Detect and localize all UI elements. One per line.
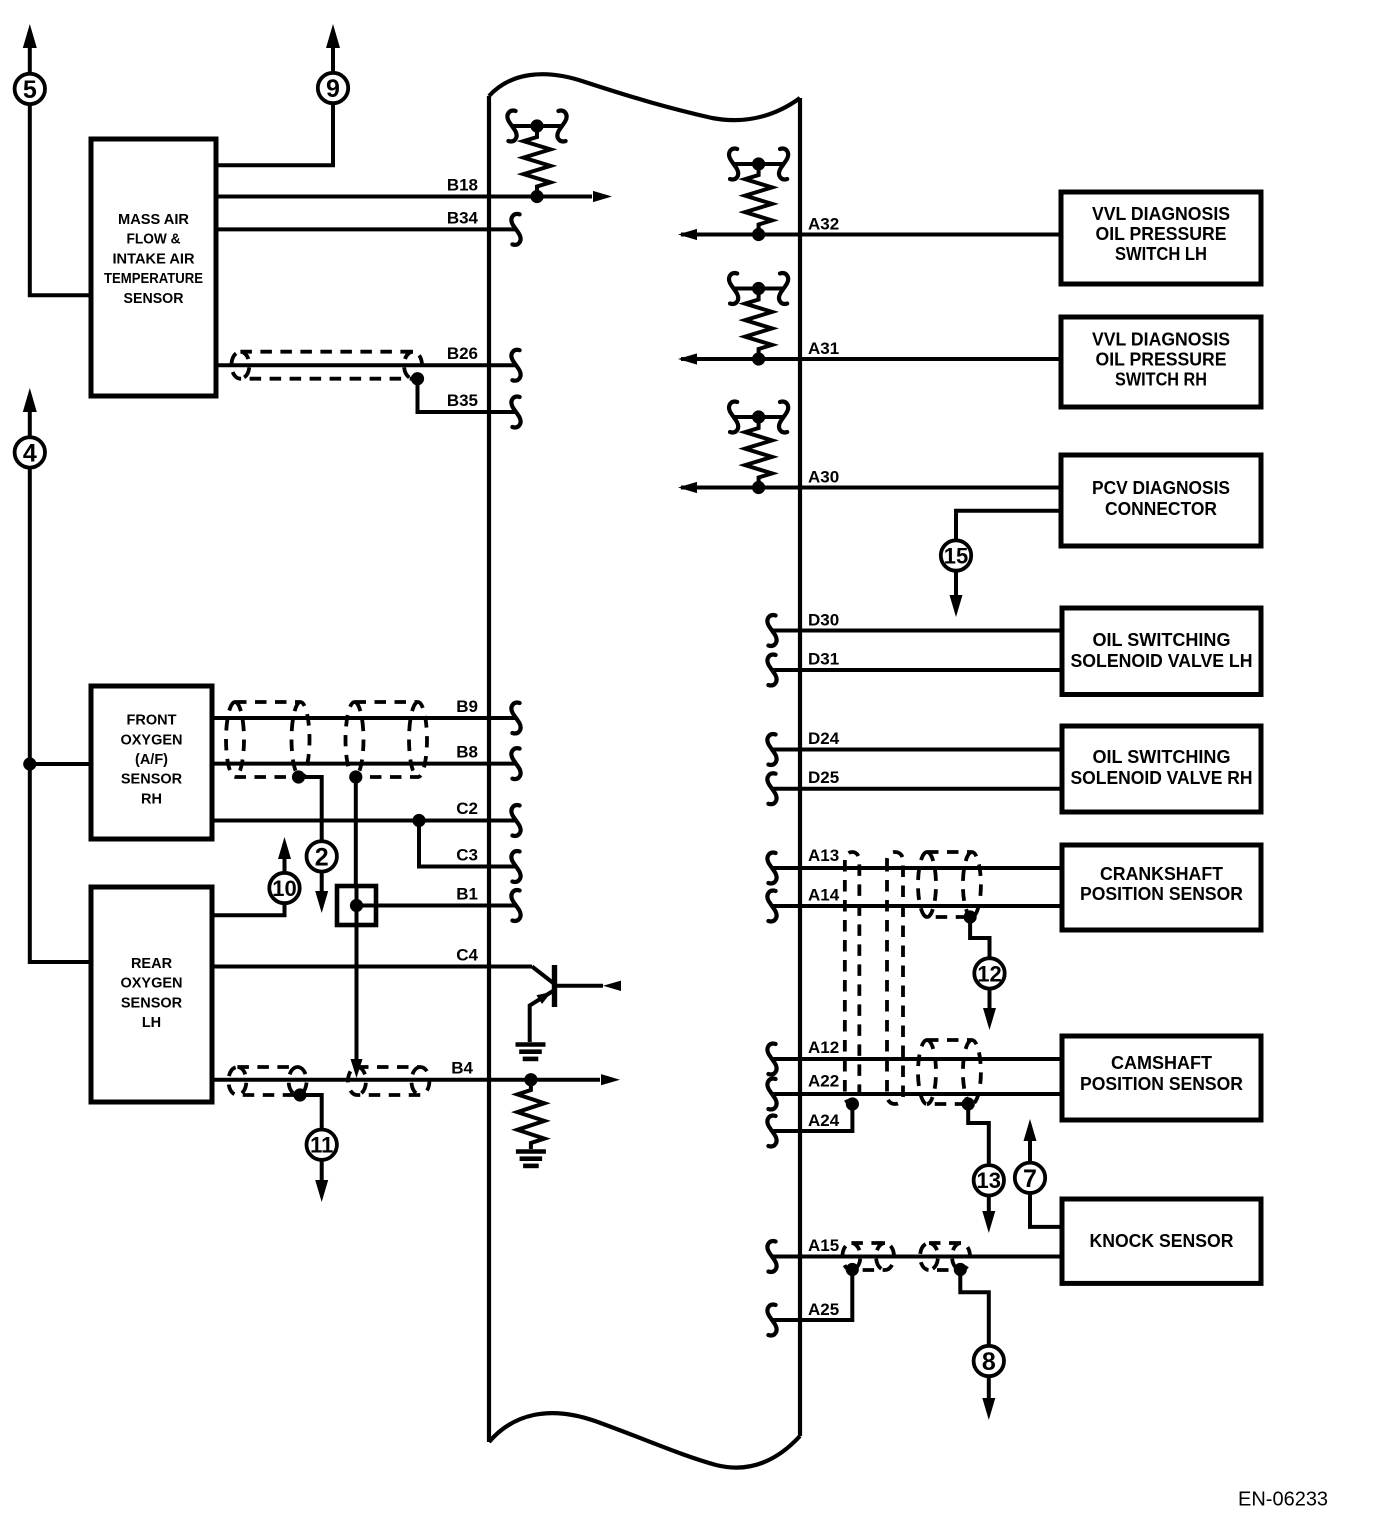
node 4 circled number 4 [15,437,45,467]
branch to FRONT OXYGEN [30,762,91,766]
R-A31 top-bar left continuation squiggle [729,273,738,304]
VVL DIAGNOSIS OIL PRESSURE SWITCH RH box [1061,317,1261,407]
node 10 arrow up [278,837,291,859]
node 7 circled number 7 [1015,1163,1045,1193]
svg-text:B18: B18 [447,176,478,195]
svg-text:INTAKE AIR: INTAKE AIR [113,251,196,267]
svg-text:B26: B26 [447,344,478,363]
svg-text:B1: B1 [456,885,478,904]
A15 shieldA junction [846,1263,859,1276]
svg-text:C2: C2 [456,799,478,818]
MASS AIR FLOW & INTAKE AIR TEMPERATURE SENSOR box [91,139,216,396]
svg-text:D31: D31 [808,650,839,669]
svg-text:OIL PRESSURE: OIL PRESSURE [1096,223,1227,244]
svg-text:FLOW &: FLOW & [127,232,181,248]
ECU torn bottom edge [489,1413,800,1467]
break B9 [511,703,520,734]
node 13 arrow shaft [987,1195,991,1212]
svg-text:SOLENOID VALVE LH: SOLENOID VALVE LH [1071,650,1253,671]
break B35 [511,397,520,428]
KNOCK SENSOR box [1062,1199,1261,1283]
svg-text:POSITION SENSOR: POSITION SENSOR [1080,1073,1243,1094]
arrow into B4 shield2 [351,1059,363,1078]
svg-text:KNOCK SENSOR: KNOCK SENSOR [1090,1230,1234,1251]
break A13 [767,853,776,884]
transistor Q1 base bar [552,965,557,1007]
wire A14 [772,904,1062,908]
wire MAF to node 9 [216,103,333,165]
R-A32 top-bar left continuation squiggle [729,149,738,180]
svg-text:CRANKSHAFT: CRANKSHAFT [1100,863,1224,884]
node 12 arrow shaft [988,988,992,1010]
svg-text:8: 8 [982,1348,996,1376]
transistor collector wire [555,984,604,988]
shield around A13/A14 [918,852,981,917]
wire D24 [772,748,1062,752]
wire REAR OXYGEN to node 10 [212,902,285,915]
svg-text:POSITION SENSOR: POSITION SENSOR [1080,883,1243,904]
B18 arrow right [593,191,612,202]
break B8 [511,748,520,779]
node 8 circled number 8 [974,1346,1004,1376]
svg-text:A15: A15 [808,1236,839,1255]
node 7 arrow up [1024,1119,1037,1141]
break D24 [767,734,776,765]
node 9 arrow up [326,24,340,48]
wire crank shield to node 12 [970,917,989,958]
R-A31 top bar [734,287,784,291]
transistor emitter ground [516,1045,546,1059]
svg-text:A12: A12 [808,1038,839,1057]
VVL DIAGNOSIS OIL PRESSURE SWITCH LH box [1061,192,1261,284]
collector arrow pointing left [603,981,621,991]
R-B18 top junction [530,119,543,132]
wire A32 [681,233,1061,237]
node 4 arrow up [23,388,37,412]
svg-text:B35: B35 [447,391,478,410]
CAMSHAFT POSITION SENSOR box [1062,1036,1261,1120]
R-A32 bottom junction [752,228,765,241]
shield 2 around B9/B8 [346,702,428,777]
node 11 arrow down [315,1180,328,1202]
svg-text:SENSOR: SENSOR [121,995,183,1011]
R-B18 top-bar right continuation squiggle [557,111,566,142]
R-B18 top-bar left continuation squiggle [507,111,516,142]
R-A30 top bar [734,415,784,419]
node 12 circled number 12 [974,958,1004,988]
svg-text:10: 10 [272,876,296,901]
R-A30 top junction [752,410,765,423]
wire A22 [772,1092,1062,1096]
wire A12 [772,1057,1062,1061]
resistor R-B18 [524,131,551,193]
svg-text:(A/F): (A/F) [135,752,168,768]
svg-text:LH: LH [142,1015,161,1031]
svg-text:A25: A25 [808,1300,839,1319]
svg-text:5: 5 [23,76,37,104]
wire B1-square down to B4 shield [355,925,359,1059]
node 15 circled number 15 [941,540,971,570]
svg-text:12: 12 [977,961,1001,986]
R-A31 bottom junction [752,352,765,365]
node 4 arrow shaft [28,408,32,438]
shield1 B9B8 junction [292,770,305,783]
svg-text:A22: A22 [808,1072,839,1091]
break A24 [767,1116,776,1147]
svg-text:15: 15 [944,543,968,568]
resistor R-B4 [517,1084,544,1149]
OIL SWITCHING SOLENOID VALVE RH box [1062,726,1261,812]
R-A30 bottom junction [752,481,765,494]
svg-text:SWITCH LH: SWITCH LH [1115,243,1207,264]
B1 junction square [337,886,376,925]
svg-text:TEMPERATURE: TEMPERATURE [104,271,203,287]
svg-text:SENSOR: SENSOR [121,772,183,788]
shield around A12/A22 [918,1040,981,1104]
svg-text:RH: RH [141,791,162,807]
svg-text:D24: D24 [808,729,840,748]
svg-text:FRONT: FRONT [127,713,177,729]
shield 2 around B4 [348,1067,429,1095]
svg-text:OXYGEN: OXYGEN [120,732,182,748]
svg-text:A30: A30 [808,468,839,487]
node 5 arrow shaft [28,44,32,74]
svg-text:B8: B8 [456,743,478,762]
C4 into base [532,967,555,985]
svg-text:7: 7 [1023,1165,1037,1193]
wire cam shield to node 13 [968,1104,989,1166]
svg-text:D25: D25 [808,768,839,787]
break B26 [511,350,520,381]
wire B9 [212,716,516,720]
resistor R-A31 [745,294,772,356]
svg-text:MASS AIR: MASS AIR [118,212,190,228]
B4 arrow right [601,1074,620,1085]
svg-text:SWITCH RH: SWITCH RH [1115,369,1207,390]
node 5 arrow up [23,24,37,48]
oval1 bottom junction [846,1097,859,1110]
wire C4 [212,965,532,969]
shield2 down to B1 square [354,777,358,886]
shield 1 around B9/B8 [226,702,310,777]
twisted pair shield line 1 [845,852,860,1104]
R-A32 top bar [734,162,784,166]
twisted pair shield line 2 [887,852,903,1104]
ground under R-B4 [516,1152,546,1166]
wire A31 [681,357,1061,361]
ECU left edge wire [487,96,491,1442]
wire node5 to MASS AIR FLOW sensor [30,104,91,296]
node 2 arrow down [315,891,328,913]
wire B26 [216,363,516,367]
B4 junction at resistor [524,1073,537,1086]
svg-text:SENSOR: SENSOR [124,291,185,307]
wire B34 [216,227,516,231]
break B34 [511,214,520,245]
svg-text:A13: A13 [808,846,839,865]
R-A32 top junction [752,157,765,170]
svg-text:C3: C3 [456,846,478,865]
node 15 arrow shaft [954,570,958,596]
node 10 arrow shaft [283,856,287,873]
svg-text:SOLENOID VALVE RH: SOLENOID VALVE RH [1071,767,1253,788]
svg-text:A14: A14 [808,886,840,905]
OIL SWITCHING SOLENOID VALVE LH box [1062,608,1261,695]
break D31 [767,655,776,686]
CRANKSHAFT POSITION SENSOR box [1062,845,1261,930]
node 11 arrow shaft [320,1160,324,1182]
svg-text:OIL PRESSURE: OIL PRESSURE [1096,349,1227,370]
vertical through B1 square [355,886,359,925]
wire D25 [772,787,1062,791]
crank shield junction [964,910,977,923]
wire D31 [772,668,1062,672]
resistor R-A32 [745,169,772,231]
break A22 [767,1079,776,1110]
wire A30 [681,486,1061,490]
node 2 circled number 2 [307,841,337,871]
wire C3 branch [419,821,516,867]
wire A24 [772,1104,852,1131]
PCV DIAGNOSIS CONNECTOR box [1061,455,1261,546]
node 8 arrow shaft [987,1376,991,1399]
transistor emitter wire [530,990,555,1042]
break D25 [767,773,776,804]
R-A32 top-bar right continuation squiggle [779,149,788,180]
break B1 [511,890,520,921]
svg-text:11: 11 [310,1133,333,1158]
shield B around A15 [920,1243,970,1270]
node 10 circled number 10 [269,873,299,903]
node 13 arrow down [982,1211,995,1233]
wire B8 [212,762,516,766]
node 9 arrow shaft [331,44,335,73]
svg-text:C4: C4 [456,946,478,965]
shield around B26 wire [231,352,422,379]
break C3 [511,851,520,882]
shield A around A15 [842,1243,894,1270]
node 9 circled number 9 [318,73,348,103]
shield B26 junction [411,372,424,385]
A32 arrow left [678,229,697,240]
svg-text:OIL SWITCHING: OIL SWITCHING [1093,746,1231,767]
wire B4 [212,1078,600,1082]
B1 junction dot [350,899,363,912]
svg-text:A32: A32 [808,215,839,234]
node 11 circled number 11 [307,1130,337,1160]
break A25 [767,1305,776,1336]
break A14 [767,891,776,922]
break A15 [767,1241,776,1272]
break D30 [767,615,776,646]
A31 arrow left [678,353,697,364]
FRONT OXYGEN (A/F) SENSOR RH box [91,686,212,839]
resistor R-A30 [745,422,772,484]
wire C2 [212,819,516,823]
wire B35 from shield [418,379,517,412]
wire B1 [357,904,517,908]
wire PCV to node 15 [956,511,1061,541]
svg-text:CONNECTOR: CONNECTOR [1105,498,1217,519]
wire A25 [772,1270,852,1321]
shield2 B9B8 junction [349,770,362,783]
svg-text:REAR: REAR [131,956,173,972]
wire A15 shieldB to node 8 [960,1270,989,1347]
wire shield1 to node 2 [299,777,322,842]
shield 1 around B4 [228,1067,306,1095]
svg-text:EN-06233: EN-06233 [1238,1489,1328,1511]
svg-text:CAMSHAFT: CAMSHAFT [1111,1052,1213,1073]
svg-text:B34: B34 [447,209,479,228]
svg-text:PCV DIAGNOSIS: PCV DIAGNOSIS [1092,477,1230,498]
node 12 arrow down [983,1008,996,1030]
A15 shieldB junction [954,1263,967,1276]
node 15 arrow down [950,595,963,617]
node 2 arrow shaft [320,871,324,894]
left rail node4 to REAR OXYGEN [30,467,91,962]
wire KNOCK to node 7 [1030,1193,1062,1227]
svg-text:B4: B4 [451,1059,473,1078]
R-A30 top-bar right continuation squiggle [779,402,788,433]
svg-text:4: 4 [23,439,37,467]
wire shield1-B4 to node 11 [300,1095,322,1130]
node 5 circled number 5 [15,74,45,104]
svg-text:B9: B9 [456,697,478,716]
svg-text:D30: D30 [808,611,839,630]
cam shield junction [962,1097,975,1110]
svg-text:VVL DIAGNOSIS: VVL DIAGNOSIS [1092,329,1230,350]
break A12 [767,1044,776,1075]
emitter arrow toward base [536,992,551,1004]
svg-text:2: 2 [315,843,329,871]
svg-text:OIL SWITCHING: OIL SWITCHING [1093,629,1231,650]
C2 junction [412,814,425,827]
R-A31 top junction [752,282,765,295]
node 8 arrow down [982,1398,995,1420]
svg-text:OXYGEN: OXYGEN [120,976,182,992]
ECU torn top edge [489,74,800,120]
left rail junction [23,757,36,770]
svg-text:9: 9 [326,75,340,103]
R-B18 top bar [512,124,562,128]
svg-text:VVL DIAGNOSIS: VVL DIAGNOSIS [1092,203,1230,224]
R-A31 top-bar right continuation squiggle [779,273,788,304]
shield1 B4 junction [293,1088,306,1101]
R-A30 top-bar left continuation squiggle [729,402,738,433]
wire D30 [772,629,1062,633]
REAR OXYGEN SENSOR LH box [91,887,212,1102]
R-B18 bottom junction [530,190,543,203]
ECU right edge wire [798,98,802,1436]
A30 arrow left [678,482,697,493]
wire B18 [216,195,592,199]
svg-text:A31: A31 [808,339,839,358]
svg-text:A24: A24 [808,1111,840,1130]
wire A15 [772,1255,1062,1259]
node 7 arrow shaft [1028,1140,1032,1163]
break C2 [511,805,520,836]
node 13 circled number 13 [974,1165,1004,1195]
wire A13 [772,866,1062,870]
svg-text:13: 13 [977,1168,1001,1193]
